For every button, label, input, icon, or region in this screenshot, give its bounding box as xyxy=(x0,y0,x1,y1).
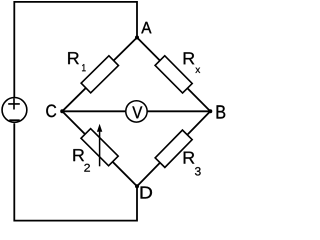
resistor R3 body xyxy=(155,130,192,167)
node B junction dot xyxy=(208,109,212,113)
voltmeter V xyxy=(126,101,147,122)
label R2 xyxy=(73,149,90,171)
node A label xyxy=(141,22,151,33)
wire: arm D to B xyxy=(137,111,210,186)
node B label xyxy=(217,105,226,118)
battery plus sign xyxy=(8,98,20,109)
node D junction dot xyxy=(135,184,139,188)
voltage source (battery circle) xyxy=(2,98,27,123)
wire: bottom outer loop from battery - terminal to node D xyxy=(14,123,137,220)
wire: arm C to D xyxy=(62,111,137,186)
label R3 xyxy=(184,152,201,176)
label R1 xyxy=(68,52,85,71)
wire: top outer loop from battery + terminal to node A xyxy=(14,2,137,97)
node D label xyxy=(141,187,152,199)
resistor Rx body xyxy=(155,56,192,93)
node C junction dot xyxy=(60,109,64,113)
resistor R1 body xyxy=(81,56,118,93)
variable resistor R2 arrow xyxy=(97,124,102,167)
node C label xyxy=(46,105,56,118)
resistor R2 body (variable) xyxy=(81,129,118,166)
wire: arm C to A xyxy=(62,38,137,112)
label Rx xyxy=(184,52,200,73)
node A junction dot xyxy=(135,36,139,40)
wire: arm A to B xyxy=(137,38,210,112)
battery minus sign xyxy=(9,119,19,121)
wire: voltmeter branch C to B xyxy=(62,110,210,112)
